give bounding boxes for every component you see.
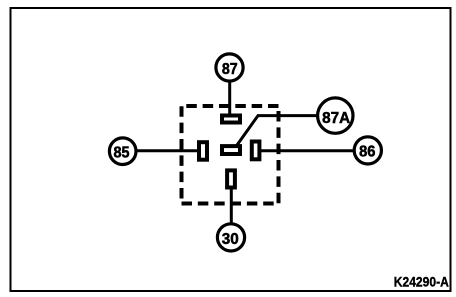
node 86 (354, 137, 381, 164)
wire to terminal 86 (260, 149, 354, 152)
node 30 (217, 224, 244, 251)
node 87 (216, 54, 243, 81)
wire to terminal 87A (236, 116, 317, 147)
svg-text:86: 86 (359, 143, 375, 160)
relay K1 dashed outline (182, 106, 279, 204)
node 87A (318, 98, 353, 133)
terminal 86 pin (252, 142, 260, 160)
terminal 85 pin (199, 142, 207, 160)
common terminal pin (center) (222, 146, 240, 154)
terminal 30 pin (227, 170, 235, 187)
svg-text:30: 30 (222, 231, 239, 248)
node 85 (109, 138, 136, 165)
wire to terminal 87 (228, 80, 231, 115)
wire to terminal 85 (135, 149, 199, 152)
svg-text:85: 85 (114, 145, 130, 162)
svg-text:87A: 87A (322, 110, 350, 127)
terminal 87 pin (222, 116, 240, 123)
svg-text:87: 87 (222, 61, 238, 78)
svg-text:K24290-A: K24290-A (394, 275, 449, 291)
wire to terminal 30 (230, 188, 233, 224)
